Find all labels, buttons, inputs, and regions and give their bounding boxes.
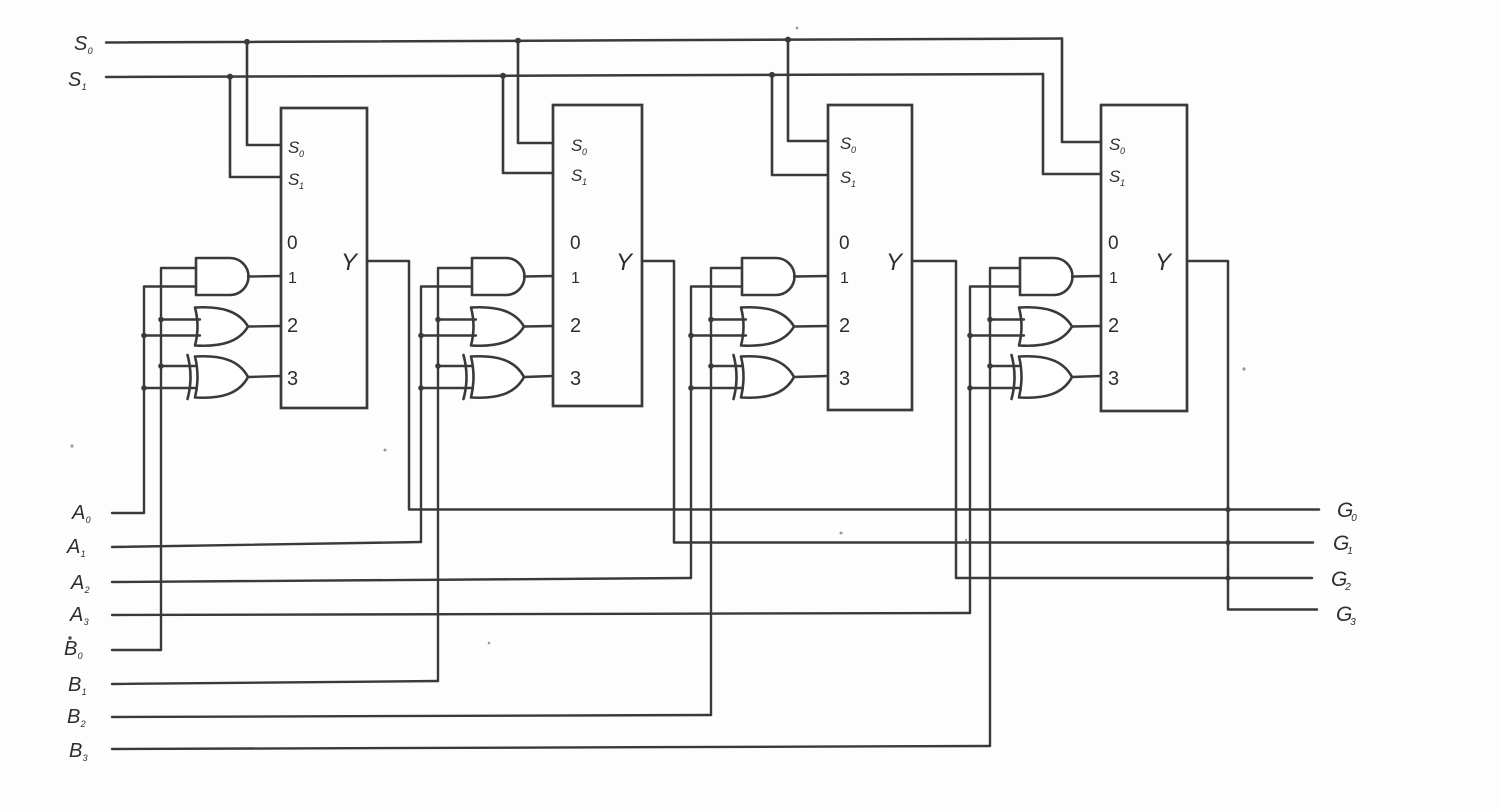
svg-text:3: 3 — [84, 617, 89, 627]
svg-text:A: A — [66, 536, 80, 558]
svg-text:3: 3 — [83, 753, 88, 763]
svg-text:Y: Y — [616, 249, 634, 276]
svg-text:Y: Y — [341, 249, 359, 276]
svg-text:2: 2 — [570, 315, 581, 337]
svg-text:0: 0 — [582, 147, 587, 157]
svg-text:0: 0 — [86, 515, 91, 525]
svg-text:2: 2 — [84, 585, 90, 595]
svg-text:0: 0 — [1120, 146, 1125, 156]
svg-text:1: 1 — [82, 82, 87, 92]
svg-text:0: 0 — [851, 145, 856, 155]
svg-text:1: 1 — [81, 549, 86, 559]
svg-text:1: 1 — [82, 687, 87, 697]
svg-text:Y: Y — [886, 249, 904, 276]
svg-text:S: S — [74, 33, 88, 55]
svg-text:B: B — [64, 638, 77, 660]
svg-text:A: A — [71, 502, 85, 524]
svg-text:1: 1 — [1347, 546, 1353, 557]
svg-text:3: 3 — [1350, 617, 1356, 628]
svg-text:2: 2 — [839, 315, 850, 337]
svg-text:3: 3 — [287, 368, 298, 390]
svg-text:B: B — [69, 740, 82, 762]
svg-text:B: B — [67, 706, 80, 728]
svg-text:0: 0 — [570, 233, 581, 254]
svg-text:0: 0 — [1108, 233, 1119, 254]
svg-text:1: 1 — [299, 181, 304, 191]
svg-text:0: 0 — [839, 233, 850, 254]
svg-text:A: A — [69, 604, 83, 626]
svg-text:2: 2 — [1344, 582, 1351, 593]
svg-text:0: 0 — [1351, 513, 1357, 524]
svg-text:Y: Y — [1155, 249, 1173, 276]
svg-text:B: B — [68, 674, 81, 696]
svg-text:3: 3 — [1108, 368, 1119, 390]
svg-text:3: 3 — [570, 368, 581, 390]
svg-text:1: 1 — [288, 270, 297, 287]
svg-text:1: 1 — [571, 270, 580, 287]
svg-text:A: A — [70, 572, 84, 594]
svg-text:2: 2 — [1108, 315, 1119, 337]
svg-text:2: 2 — [287, 315, 298, 337]
svg-text:1: 1 — [582, 177, 587, 187]
svg-text:1: 1 — [840, 270, 849, 287]
svg-text:0: 0 — [78, 651, 83, 661]
svg-text:1: 1 — [1109, 270, 1118, 287]
svg-text:2: 2 — [80, 719, 86, 729]
svg-text:1: 1 — [851, 179, 856, 189]
svg-text:0: 0 — [299, 149, 304, 159]
svg-text:0: 0 — [88, 46, 93, 56]
svg-text:1: 1 — [1120, 178, 1125, 188]
svg-text:S: S — [68, 69, 82, 91]
svg-text:3: 3 — [839, 368, 850, 390]
svg-text:0: 0 — [287, 233, 298, 254]
